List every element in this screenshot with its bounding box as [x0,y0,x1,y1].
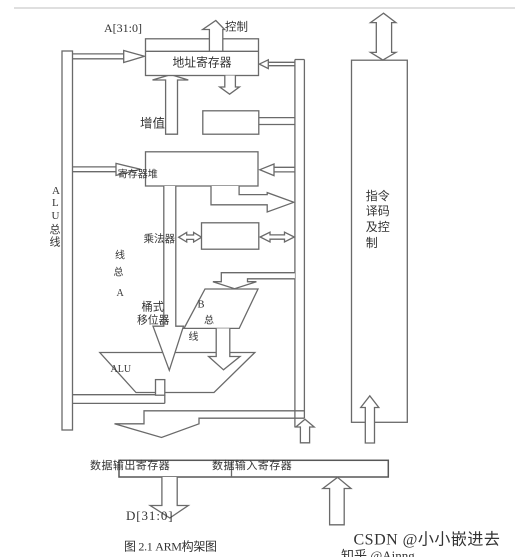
svg-text:L: L [52,197,59,209]
wire bus to address register [268,62,295,65]
svg-text:D[31:0]: D[31:0] [126,508,173,523]
svg-text:数据输入寄存器: 数据输入寄存器 [212,458,292,472]
svg-text:数据输出寄存器: 数据输出寄存器 [90,458,170,472]
node instruction bus (right vertical) [295,60,305,428]
label 乘法器 arrow left [179,232,202,242]
block incrementer [203,111,259,134]
svg-text:总: 总 [204,314,214,327]
svg-text:总: 总 [114,266,124,279]
alu ALU trapezoid [100,353,255,393]
svg-text:桶式: 桶式 [142,300,164,314]
wire ALU bus (left vertical bus bar) [62,51,73,430]
wire incrementer to instruction bus [259,118,295,125]
wire multiplier to instruction bus [260,232,294,242]
svg-text:及控: 及控 [366,220,390,234]
node ALU bus label [50,185,61,249]
arrow bus bottom small up arrow [296,419,314,443]
svg-text:ALU: ALU [111,364,132,375]
svg-text:增值: 增值 [140,116,165,131]
label B 总 线 vertical [189,300,215,344]
wire bus to B-bus parallelogram (flat down arrow) [213,273,295,289]
wire A bus to register bank [73,167,117,172]
wire A bus to address register [73,54,124,59]
svg-text:A[31:0]: A[31:0] [104,21,142,35]
svg-text:指令: 指令 [366,188,390,203]
svg-text:知乎 @Ainng: 知乎 @Ainng [341,548,415,557]
faint top rule [14,7,515,9]
arrow B bus into ALU [209,328,240,369]
svg-text:地址寄存器: 地址寄存器 [173,56,232,70]
arrow D bus down [150,477,188,518]
svg-text:A: A [52,185,60,197]
svg-text:控制: 控制 [225,20,248,34]
wire ALU result to data out (big flat down arrow) [115,411,305,438]
svg-text:寄存器堆: 寄存器堆 [118,168,158,181]
svg-text:U: U [52,210,60,222]
svg-text:移位器: 移位器 [137,313,170,327]
svg-text:A: A [117,288,125,299]
label 桶式移位器 [137,300,170,327]
svg-text:线: 线 [50,235,61,249]
arrow control (up from address register) [203,21,225,52]
block instruction decode and control [352,60,408,422]
svg-text:图 2.1 ARM构架图: 图 2.1 ARM构架图 [124,539,217,554]
svg-text:CSDN @小小嵌进去: CSDN @小小嵌进去 [354,531,501,549]
register data out / data in [119,460,388,477]
arrow double headed at top of decode box [371,13,396,60]
register bank [146,152,259,186]
svg-text:线: 线 [189,330,199,343]
svg-text:线: 线 [115,249,125,262]
svg-text:B: B [198,300,205,311]
node B bus parallelogram [184,289,258,328]
wire bus to register bank [274,167,295,172]
svg-text:总: 总 [50,222,61,236]
svg-text:乘法器: 乘法器 [144,232,176,245]
arrow up into data in register [323,477,351,525]
svg-text:译码: 译码 [366,204,390,218]
block multiplier [202,223,259,249]
svg-text:制: 制 [366,236,378,250]
label 线总A vertical [114,249,126,300]
arrow A bus funnel into ALU [153,186,184,370]
wire register bank to B bus (big right arrow) [211,186,294,212]
wire incrementer feedback bar [153,75,189,135]
arrow address register to incrementer [220,76,240,95]
register address register [146,39,259,76]
arrow up into decode box bottom [361,396,379,443]
wire ALU output tab [73,395,165,404]
